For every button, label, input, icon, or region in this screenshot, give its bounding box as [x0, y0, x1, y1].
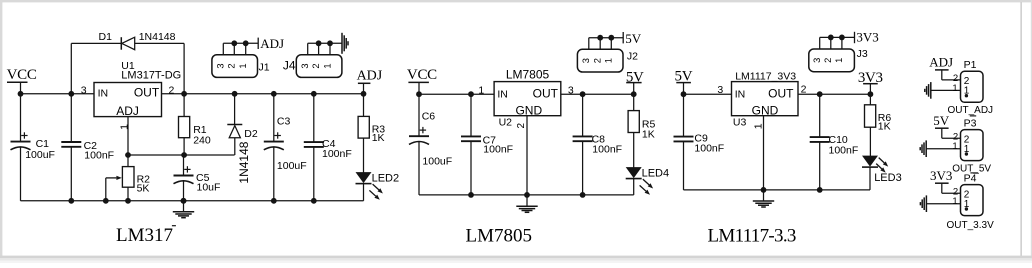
svg-text:LED2: LED2	[372, 173, 400, 185]
svg-text:OUT: OUT	[134, 86, 160, 100]
svg-text:LM1117_3V3: LM1117_3V3	[735, 70, 796, 82]
svg-text:1: 1	[952, 196, 957, 207]
svg-text:100uF: 100uF	[422, 156, 452, 168]
svg-text:J2: J2	[627, 51, 638, 63]
svg-text:OUT_ADJ: OUT_ADJ	[948, 105, 994, 116]
svg-text:100nF: 100nF	[829, 144, 859, 156]
svg-text:D1: D1	[99, 31, 113, 43]
svg-text:P3: P3	[964, 117, 977, 129]
svg-text:IN: IN	[98, 88, 109, 100]
svg-text:3V3: 3V3	[856, 30, 878, 45]
svg-text:LM317: LM317	[116, 225, 173, 246]
svg-text:1: 1	[119, 124, 131, 130]
svg-text:ADJ: ADJ	[357, 69, 383, 84]
svg-text:3: 3	[216, 63, 226, 68]
svg-text:1: 1	[834, 58, 844, 63]
svg-text:J1: J1	[259, 62, 270, 74]
svg-text:1N4148: 1N4148	[139, 31, 176, 43]
svg-text:2: 2	[169, 84, 175, 96]
svg-text:2: 2	[311, 63, 321, 68]
svg-text:3V3: 3V3	[930, 168, 952, 183]
svg-text:OUT_3.3V: OUT_3.3V	[947, 220, 995, 231]
svg-text:240: 240	[193, 134, 211, 146]
svg-text:U3: U3	[733, 116, 747, 128]
svg-text:100nF: 100nF	[483, 144, 513, 156]
svg-text:J4: J4	[283, 59, 296, 73]
svg-text:100uF: 100uF	[277, 160, 307, 172]
svg-text:LM317T-DG: LM317T-DG	[121, 69, 181, 81]
svg-text:5V: 5V	[933, 113, 950, 128]
svg-text:OUT: OUT	[768, 86, 794, 100]
svg-text:1: 1	[238, 63, 248, 68]
svg-text:P1: P1	[964, 59, 977, 71]
svg-text:IN: IN	[735, 88, 746, 100]
svg-text:LED3: LED3	[874, 172, 902, 184]
svg-text:5K: 5K	[137, 183, 150, 195]
svg-text:ADJ: ADJ	[260, 36, 284, 51]
svg-text:2: 2	[516, 123, 527, 129]
svg-text:D2: D2	[244, 128, 258, 140]
svg-text:5V: 5V	[625, 31, 642, 46]
svg-text:1: 1	[952, 83, 957, 94]
svg-text:2: 2	[227, 63, 237, 68]
svg-text:VCC: VCC	[407, 67, 437, 83]
svg-text:J3: J3	[857, 48, 868, 60]
svg-text:3: 3	[81, 84, 87, 96]
svg-text:10uF: 10uF	[197, 181, 221, 193]
svg-text:1K: 1K	[372, 132, 385, 144]
svg-text:VCC: VCC	[7, 67, 37, 83]
svg-text:ADJ: ADJ	[116, 104, 139, 118]
svg-text:P4: P4	[964, 172, 977, 184]
svg-text:U2: U2	[499, 117, 513, 129]
svg-text:100nF: 100nF	[694, 142, 724, 154]
svg-text:LED4: LED4	[642, 168, 670, 180]
svg-text:1: 1	[322, 63, 332, 68]
svg-text:2: 2	[593, 58, 603, 63]
svg-text:LM7805: LM7805	[466, 226, 533, 247]
svg-text:3: 3	[300, 63, 310, 68]
svg-text:1: 1	[604, 58, 614, 63]
svg-text:1: 1	[752, 123, 764, 129]
svg-text:3: 3	[812, 58, 822, 63]
svg-text:OUT: OUT	[533, 86, 559, 100]
svg-text:ADJ: ADJ	[929, 55, 953, 70]
svg-text:100nF: 100nF	[322, 148, 352, 160]
svg-text:100uF: 100uF	[25, 149, 55, 161]
svg-text:LM1117-3.3: LM1117-3.3	[708, 226, 796, 247]
svg-text:1: 1	[478, 85, 484, 97]
svg-text:1N4148: 1N4148	[237, 141, 251, 183]
svg-text:C6: C6	[422, 111, 436, 123]
svg-text:100nF: 100nF	[592, 144, 622, 156]
svg-text:GND: GND	[752, 104, 779, 118]
svg-text:C3: C3	[277, 115, 291, 127]
svg-text:100nF: 100nF	[84, 149, 114, 161]
svg-text:LM7805: LM7805	[506, 68, 550, 82]
svg-text:3: 3	[581, 58, 591, 63]
svg-text:3: 3	[717, 84, 723, 96]
svg-text:IN: IN	[497, 88, 508, 100]
svg-text:1K: 1K	[642, 128, 655, 140]
svg-text:1: 1	[952, 141, 957, 152]
svg-text:GND: GND	[515, 104, 542, 118]
svg-text:2: 2	[823, 58, 833, 63]
svg-text:1K: 1K	[878, 121, 891, 133]
